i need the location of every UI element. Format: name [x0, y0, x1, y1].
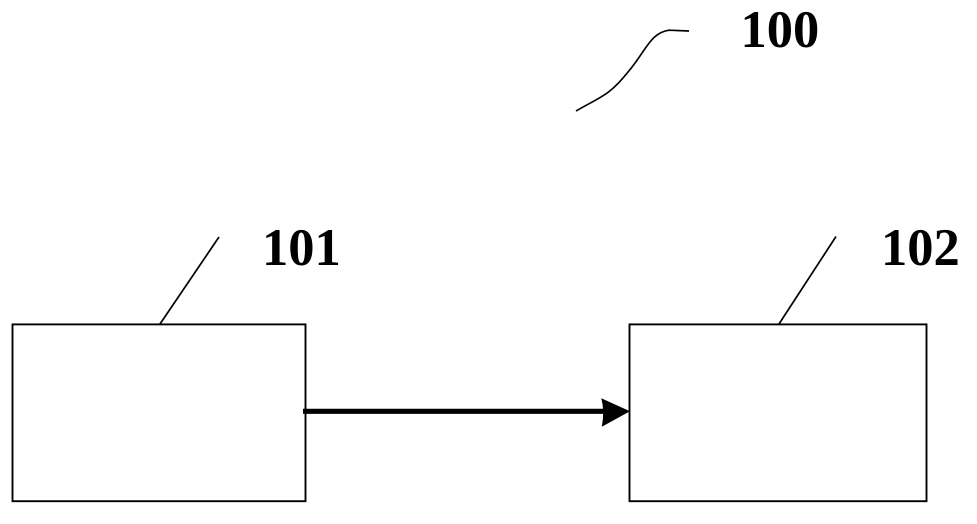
svg-text:101: 101 [262, 219, 341, 277]
leader line 102 [779, 237, 836, 325]
box 102 [630, 324, 927, 501]
leader line 101 [160, 237, 219, 324]
svg-text:100: 100 [741, 1, 820, 59]
reference curve for 100 [576, 30, 689, 111]
arrowhead [601, 398, 630, 427]
box 101 [13, 324, 306, 501]
svg-text:102: 102 [881, 219, 960, 277]
arrow wire [303, 409, 606, 414]
